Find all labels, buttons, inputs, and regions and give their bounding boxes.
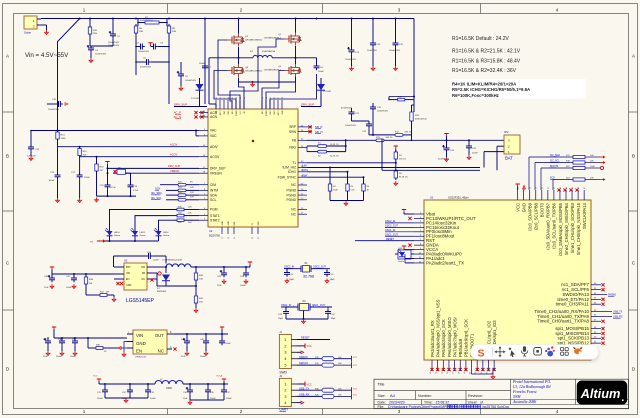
wire R19 bottom col [96, 173, 98, 196]
capacitor C22 18pF [326, 270, 328, 273]
power VCC LDO in [52, 326, 56, 328]
svg-text:INTM: INTM [210, 189, 218, 193]
svg-text:Revision:: Revision: [468, 394, 483, 398]
LED LED6 Green [158, 228, 160, 231]
svg-text:of: of [480, 401, 483, 405]
svg-text:ACN: ACN [210, 115, 218, 119]
power tap C2-C3 [148, 42, 152, 44]
svg-text:100nF: 100nF [84, 177, 90, 179]
red X U3 pins [116, 282, 119, 285]
inductor L1 [253, 55, 272, 57]
svg-text:100nF: 100nF [70, 356, 76, 358]
svg-text:File:: File: [378, 405, 385, 409]
svg-text:17: 17 [453, 372, 455, 374]
svg-text:X2: X2 [302, 299, 306, 303]
svg-text:\: \ [458, 405, 459, 409]
wire left col to U2 [208, 58, 210, 79]
svg-text:18pF: 18pF [331, 318, 337, 320]
resistor R42 2M [85, 286, 87, 295]
resistor R27 10R [166, 199, 178, 201]
capacitor C37 100nF/100V [395, 41, 397, 44]
svg-text:100nF: 100nF [66, 287, 72, 289]
wire C18 C19 gnd rail [97, 195, 137, 197]
svg-text:38: 38 [530, 187, 532, 189]
svg-text:BQ25756: BQ25756 [209, 234, 221, 238]
svg-text:39: 39 [232, 97, 234, 99]
svg-text:A: A [632, 54, 635, 59]
connector JP1 Solar [24, 16, 37, 29]
svg-text:Solar: Solar [24, 31, 31, 35]
wire RST [355, 240, 414, 242]
svg-text:100K: 100K [61, 138, 67, 140]
svg-text:100nF: 100nF [49, 180, 55, 182]
svg-text:48: 48 [282, 97, 284, 99]
power VCC C14 [444, 133, 448, 135]
ground C41 [73, 284, 75, 286]
svg-text:100nF: 100nF [318, 71, 324, 73]
resistor R6 86.1K [395, 163, 397, 171]
red X marks MCU top unused [557, 188, 560, 191]
wire C1-C4 link [89, 36, 91, 46]
svg-text:46: 46 [274, 97, 276, 99]
capacitor C32 100nF [129, 388, 131, 391]
svg-text:19: 19 [464, 372, 466, 374]
capacitor C16 10uF/100V [372, 41, 374, 44]
wire bridge source rail [238, 78, 240, 83]
wire X1 left [284, 268, 301, 270]
svg-text:R1=16.5K & R2=21.5K : 42.1V: R1=16.5K & R2=21.5K : 42.1V [452, 49, 521, 55]
toolbar icon microphone [523, 346, 526, 352]
svg-text:GND: GND [228, 221, 230, 226]
resistor R38 1K [87, 338, 89, 348]
svg-text:U1: U1 [430, 196, 434, 200]
toolbar icon screenshot [534, 348, 542, 356]
svg-text:100nF/100V: 100nF/100V [377, 111, 389, 113]
svg-text:NC: NC [142, 278, 146, 281]
wire X1 right [311, 268, 330, 270]
svg-text:i2c0_SDA/uart0_RX/PB7: i2c0_SDA/uart0_RX/PB7 [546, 202, 551, 249]
svg-text:A4: A4 [390, 393, 396, 398]
resistor R22 pullup [540, 168, 542, 190]
svg-text:26K 1%: 26K 1% [386, 137, 393, 139]
capacitor C4 100uF/100V [90, 46, 92, 49]
svg-text:DRV_SUP: DRV_SUP [301, 103, 314, 107]
optocoupler U4b [398, 250, 411, 259]
svg-text:DH1: DH1 [216, 111, 218, 115]
wire bridge top rail [204, 19, 206, 61]
svg-text:I2C_SDA: I2C_SDA [151, 191, 162, 195]
LED LED4 Green [109, 228, 111, 231]
svg-text:47: 47 [278, 97, 280, 99]
wire SRN sense row [369, 134, 395, 136]
red X U5 NC [173, 347, 176, 350]
red circle U3 SW [158, 272, 161, 275]
svg-text:DH2: DH2 [282, 111, 284, 115]
wire DRV_SUP left [174, 106, 207, 108]
power VREG [394, 145, 398, 147]
capacitor C33 100nF [147, 388, 149, 391]
inductor L2 150R [155, 381, 183, 384]
svg-text:NC: NC [291, 208, 296, 212]
wire output drop x414 [413, 19, 415, 113]
svg-text:BST: BST [126, 266, 131, 269]
U2 top pins [215, 100, 217, 109]
svg-text:44: 44 [566, 187, 568, 189]
svg-text:VAC: VAC [210, 134, 217, 138]
resistor R5 col [347, 172, 349, 184]
ground C42 [223, 279, 225, 281]
svg-text:32.4K 1%: 32.4K 1% [330, 156, 339, 158]
svg-text:100uF/100V: 100uF/100V [95, 54, 107, 56]
svg-text:86.1K 1%: 86.1K 1% [399, 177, 408, 179]
wire to JP2 [497, 145, 504, 147]
svg-text:4.7uF: 4.7uF [133, 190, 139, 192]
svg-text:GND: GND [521, 203, 526, 212]
svg-text:LGS5145EP: LGS5145EP [126, 298, 154, 304]
power Vbat red [402, 209, 406, 211]
wire main input rail [41, 18, 320, 20]
power GND MCU top [523, 186, 526, 190]
resistor R18 pullup [534, 163, 536, 191]
connector J1 SWD [279, 335, 291, 369]
svg-text:10R: 10R [190, 192, 194, 194]
svg-text:DL2: DL2 [262, 111, 264, 114]
resistor R41 [195, 282, 197, 296]
svg-text:100nF: 100nF [150, 398, 156, 400]
capacitor C18 4.7uF [107, 183, 109, 186]
svg-text:100nF: 100nF [56, 356, 62, 358]
svg-text:U3: U3 [124, 259, 128, 263]
capacitor C31 100nF [104, 388, 106, 391]
wire X2 gnd rail [285, 316, 287, 319]
svg-text:VCC: VCC [93, 376, 98, 378]
capacitor C35 100nF [207, 388, 209, 391]
svg-text:100nF: 100nF [472, 153, 478, 155]
svg-text:43: 43 [560, 187, 562, 189]
power VCC LDO out [220, 326, 224, 328]
svg-text:VREGN: VREGN [170, 169, 179, 173]
resistor R4 20K [395, 150, 397, 152]
capacitor C38 100nF [61, 339, 63, 342]
svg-text:37: 37 [523, 187, 525, 189]
svg-text:40: 40 [542, 187, 544, 189]
svg-text:21: 21 [258, 237, 260, 239]
svg-text:4: 4 [284, 357, 286, 361]
wire LDO out rail [175, 333, 228, 335]
svg-text:SWCLK/PA14: SWCLK/PA14 [582, 202, 587, 229]
resistor R35 10K [158, 209, 177, 211]
svg-text:LP5907-33: LP5907-33 [135, 357, 146, 359]
resistor RS2 5mR1W2512 [411, 105, 413, 112]
svg-text:1: 1 [284, 338, 286, 342]
regulator U3 body [124, 263, 147, 290]
svg-text:100uF/100V: 100uF/100V [108, 42, 120, 44]
wire U3 input rail [52, 273, 114, 275]
capacitor C40 22uF [51, 276, 53, 279]
svg-text:5: 5 [284, 364, 286, 368]
resistor R30 USB_TX [297, 389, 322, 391]
svg-text:U2: U2 [209, 229, 213, 233]
ground ferrite caps [125, 398, 127, 400]
svg-text:FB: FB [142, 272, 145, 275]
svg-text:17: 17 [222, 237, 224, 239]
capacitor C11 470nF/100V [351, 110, 353, 113]
power J2 VCC [297, 383, 305, 385]
wire ferrite rail right [183, 383, 228, 385]
svg-text:SR_P: SR_P [315, 125, 322, 129]
svg-text:FBG: FBG [289, 146, 296, 150]
svg-text:D5 100R: D5 100R [323, 91, 331, 93]
capacitor C21 18pF [286, 270, 288, 273]
connector J2 UART [279, 378, 291, 406]
svg-text:PA6/adc6/spi0_MISO: PA6/adc6/spi0_MISO [447, 317, 452, 357]
ground C43 [245, 279, 247, 281]
wire solar pin2 to ground [41, 24, 47, 26]
svg-text:Frenchs Forest: Frenchs Forest [512, 390, 538, 394]
svg-text:10R: 10R [190, 197, 194, 199]
svg-text:VCC: VCC [240, 110, 242, 115]
svg-text:10uF/100V: 10uF/100V [367, 50, 377, 52]
capacitor C20 100nF [468, 144, 470, 147]
power VCCA [402, 245, 406, 247]
svg-text:Number:: Number: [418, 394, 432, 398]
svg-text:3: 3 [284, 395, 286, 399]
U5 GND down [124, 342, 127, 353]
U1 left pin rows [414, 213, 424, 215]
resistor Rf col [363, 177, 365, 184]
capacitor C7 100nF [204, 64, 206, 67]
svg-text:SRN: SRN [289, 130, 297, 134]
svg-text:18pF: 18pF [289, 279, 295, 281]
svg-text:time1_CH0/spi0_NSS/PA15: time1_CH0/spi0_NSS/PA15 [576, 202, 581, 254]
svg-text:470nF/100V: 470nF/100V [140, 67, 152, 69]
svg-text:100nF: 100nF [225, 343, 231, 345]
svg-text:37: 37 [224, 97, 226, 99]
op-amp U2 BQ25756 body [208, 109, 298, 227]
svg-text:22uF: 22uF [43, 356, 48, 358]
capacitor C14 220uF/100V [446, 146, 448, 149]
wire VAC rails [31, 130, 196, 132]
svg-text:STAT2: STAT2 [210, 218, 220, 222]
svg-text:AC_P: AC_P [174, 111, 181, 115]
svg-text:100uF/100V: 100uF/100V [345, 59, 357, 61]
wire caps gnd rail [104, 394, 106, 398]
resistor R29 USB_RX [297, 395, 322, 397]
svg-text:D1 100R: D1 100R [191, 98, 199, 100]
svg-text:R5=2.5K ICHG=KICHG/R5=50/5.1=9: R5=2.5K ICHG=KICHG/R5=50/5.1=9.8A [452, 87, 530, 92]
wire VREGN rail [113, 172, 199, 174]
svg-text:VCCA: VCCA [216, 375, 223, 378]
svg-text:CRCMED4N08L2: CRCMED4N08L2 [245, 71, 263, 73]
svg-text:PGND: PGND [266, 110, 268, 116]
svg-text:10R: 10R [190, 187, 194, 189]
svg-text:470nF/100V: 470nF/100V [341, 108, 353, 110]
svg-text:5.1K: 5.1K [351, 190, 356, 192]
svg-text:VCC: VCC [353, 395, 358, 397]
svg-text:22uF: 22uF [181, 356, 186, 358]
svg-text:100nF: 100nF [199, 63, 205, 65]
svg-text:10uH/1A/15A: 10uH/1A/15A [262, 50, 276, 53]
U3 pin stubs [114, 266, 124, 268]
svg-text:36: 36 [220, 97, 222, 99]
svg-text:10K: 10K [199, 302, 203, 304]
svg-text:BST2: BST2 [278, 111, 280, 116]
svg-text:i2c0_SMBA/spi0_MOSI/PB5: i2c0_SMBA/spi0_MOSI/PB5 [558, 202, 563, 256]
toolbar icon grid apps [561, 348, 564, 351]
svg-text:NSW: NSW [512, 395, 522, 399]
wire res col gnd rail [329, 193, 331, 201]
svg-text:_bq25756 SchDoc: _bq25756 SchDoc [480, 405, 510, 409]
svg-text:SW2: SW2 [274, 111, 276, 115]
svg-text:PAD: PAD [233, 221, 236, 225]
title block frame [374, 379, 629, 409]
svg-text:100nF/100V: 100nF/100V [389, 50, 401, 52]
svg-text:ACOV: ACOV [170, 152, 178, 156]
svg-text:R1=16.5K Default : 24.2V: R1=16.5K Default : 24.2V [452, 36, 510, 42]
capacitor C46 100nF [205, 339, 207, 342]
power J1 VCC [297, 345, 305, 347]
resistor R32 SWDIO [297, 358, 322, 360]
svg-text:Title: Title [378, 383, 385, 387]
svg-text:18pF: 18pF [278, 318, 284, 320]
svg-text:PA2/adc2/uart1_TX: PA2/adc2/uart1_TX [426, 260, 464, 265]
svg-text:GD32F330_48pin: GD32F330_48pin [448, 196, 469, 200]
svg-text:100nF: 100nF [97, 398, 103, 400]
svg-text:CRCMED4N08L2: CRCMED4N08L2 [245, 40, 263, 42]
svg-text:1: 1 [284, 382, 286, 386]
capacitor C36 22uF [47, 339, 49, 342]
U1 bottom pin columns [431, 360, 433, 371]
resistor R39 1M [85, 274, 87, 277]
svg-text:SCK: SCK [155, 186, 161, 190]
svg-text:Sheet: Sheet [468, 401, 477, 405]
U1 top pin columns [517, 190, 519, 200]
ground LDO out caps [186, 351, 188, 353]
svg-text:35: 35 [216, 97, 218, 99]
capacitor C13 100uF/100V [351, 48, 353, 51]
resistor R8 10R [135, 24, 137, 26]
svg-text:Time:: Time: [424, 401, 433, 405]
gnd arrow J1 pin3 [297, 351, 301, 353]
wire LDO input rail [54, 337, 127, 339]
capacitor C2 100nF/100V [138, 46, 141, 48]
transistor Q1 CRCMED4N08L2 [288, 36, 290, 43]
diode D7 B5819WS [165, 267, 167, 273]
svg-text:NC: NC [118, 167, 122, 169]
ground C21 [286, 279, 288, 281]
resistor R40 [195, 267, 197, 273]
wire ACOV rail [80, 156, 199, 158]
svg-text:SDA: SDA [210, 193, 218, 197]
svg-text:SR_N: SR_N [315, 130, 322, 134]
ground res col [345, 201, 347, 203]
svg-text:2M: 2M [106, 291, 109, 293]
svg-text:20K 1%: 20K 1% [399, 159, 406, 161]
resistor R14 100K [57, 130, 59, 132]
power bar R30 [351, 387, 353, 393]
power VREG small [105, 161, 109, 163]
resistor R10 2R4 [89, 25, 91, 27]
svg-text:i2c0_SCL/PB8: i2c0_SCL/PB8 [534, 202, 539, 230]
svg-text:i2c0_SCL/uart0_TX/PB6: i2c0_SCL/uart0_TX/PB6 [552, 202, 557, 248]
svg-text:VDD: VDD [258, 221, 260, 226]
svg-text:18: 18 [228, 237, 230, 239]
svg-text:22uF: 22uF [44, 287, 49, 289]
wire D7 to gnd rail [166, 285, 196, 287]
resistor R9 10R [168, 24, 170, 26]
svg-text:Altium: Altium [580, 386, 621, 401]
U2 left pins [199, 112, 208, 114]
svg-text:38: 38 [228, 97, 230, 99]
svg-text:45: 45 [572, 187, 574, 189]
wire x57 column [57, 99, 59, 104]
svg-text:B5819WS: B5819WS [157, 291, 167, 293]
capacitor C23 18pF [285, 309, 287, 312]
connector JP2 BAT [504, 135, 520, 154]
svg-text:JP2: JP2 [504, 130, 509, 134]
net label OSC2_OUT [385, 226, 414, 228]
svg-text:150R: 150R [166, 387, 172, 390]
svg-text:47: 47 [584, 187, 586, 189]
resistor R17 pullup [528, 157, 530, 190]
capacitor C19 4.7uF [130, 183, 132, 186]
svg-text:40: 40 [236, 97, 238, 99]
U5 pin stubs [127, 333, 133, 335]
crystal X1 32.768 [303, 266, 310, 273]
resistor R31 SWCLK [297, 364, 322, 366]
svg-text:S: S [478, 347, 485, 359]
wire T1 ILIM ICHG FSW rows [307, 162, 396, 164]
svg-text:BOOT0: BOOT0 [540, 202, 545, 217]
capacitor C30 100nF/100V [56, 103, 59, 105]
capacitor C3 100nF/100V [151, 46, 154, 48]
capacitor C47 100nF [221, 339, 223, 342]
toolbar icon fox [574, 348, 582, 354]
svg-text:10R: 10R [139, 31, 143, 33]
ground open arrow [96, 198, 98, 200]
svg-text:4.7uF: 4.7uF [111, 187, 117, 189]
capacitor C12 1uF/100V [30, 145, 32, 148]
capacitor C12b 100nF/100V [368, 122, 370, 125]
svg-text:BAT: BAT [505, 156, 513, 161]
net label OSC1_IN [385, 231, 414, 233]
ground C12 [30, 156, 32, 158]
toolbar divider [492, 348, 494, 357]
ground C15 [57, 198, 59, 200]
resistor R33 10K [168, 215, 177, 217]
svg-text:10K: 10K [199, 279, 203, 281]
svg-text:Green: Green [398, 260, 405, 263]
ground X2 [303, 319, 305, 321]
svg-text:PGND: PGND [286, 198, 296, 202]
svg-text:PA3/adc3/uart1_RX: PA3/adc3/uart1_RX [430, 320, 435, 357]
net label OSC2_IN [385, 222, 414, 224]
svg-text:16.5K 1%: 16.5K 1% [330, 144, 339, 146]
resistor R11 [389, 99, 398, 101]
ground C16 [372, 66, 374, 68]
svg-text:EN: EN [136, 349, 142, 354]
svg-text:45: 45 [270, 97, 272, 99]
svg-text:VCC: VCC [353, 365, 358, 367]
svg-text:Time0_CH0/uart1_TX/PA8: Time0_CH0/uart1_TX/PA8 [537, 319, 589, 324]
svg-text:VCC: VCC [515, 203, 520, 212]
U2 right pins [298, 126, 307, 128]
svg-text:i2c0_SDA/PB9: i2c0_SDA/PB9 [528, 202, 533, 230]
red X GNDA [408, 244, 411, 247]
svg-text:Date:: Date: [378, 401, 386, 405]
wire FB link [306, 146, 308, 152]
svg-text:20K: 20K [83, 155, 87, 157]
